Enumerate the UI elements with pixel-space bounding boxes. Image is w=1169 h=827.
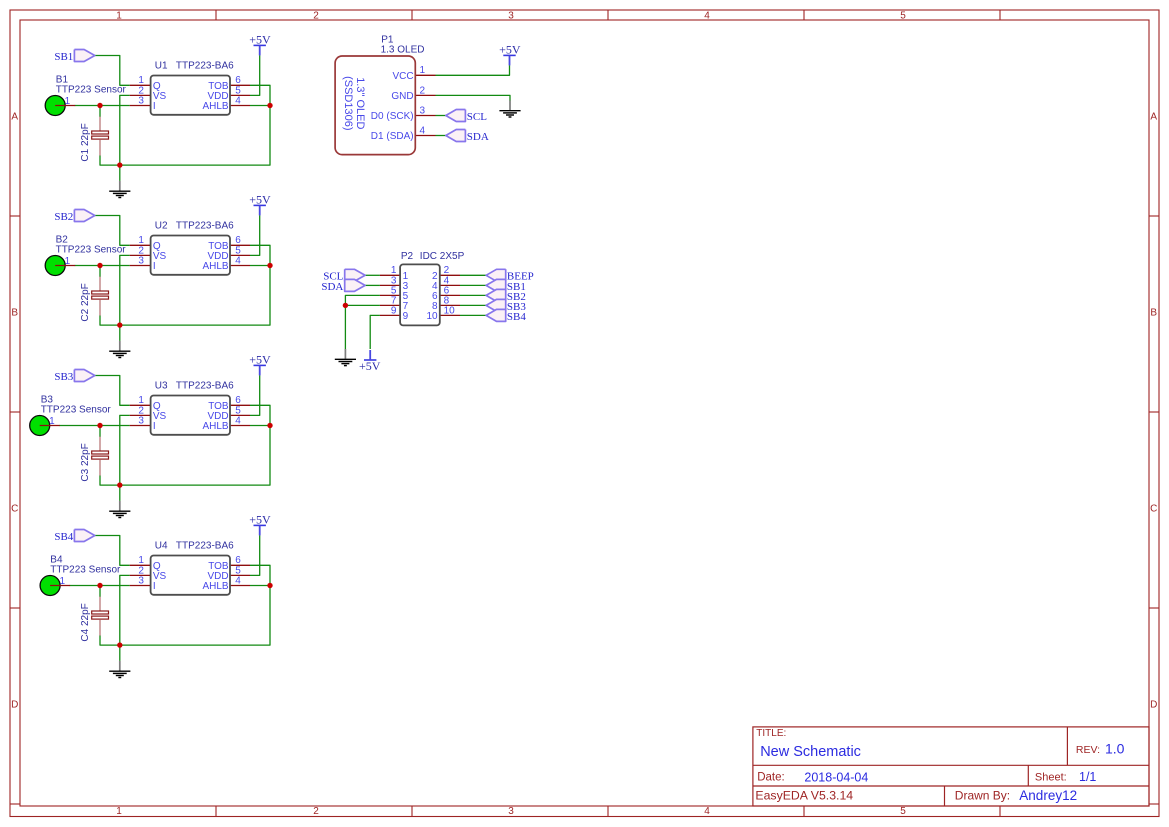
svg-text:+5V: +5V: [249, 512, 271, 526]
wire P1 D0 to SCL flag: [436, 115, 447, 117]
ground P1: [499, 100, 520, 117]
power +5V block 1: [249, 32, 271, 55]
svg-text:Drawn By:: Drawn By:: [955, 789, 1010, 803]
wire U1 pin 5 VDD to +5V: [250, 55, 260, 95]
svg-text:3: 3: [138, 415, 144, 426]
touch pad B1: [45, 96, 75, 116]
connector P2 IDC 2X5P: [380, 264, 460, 325]
svg-text:U1: U1: [155, 61, 168, 72]
svg-text:IDC 2X5P: IDC 2X5P: [420, 251, 465, 262]
capacitor C2 22pF: [80, 277, 108, 322]
svg-text:SB3: SB3: [54, 371, 73, 383]
svg-text:AHLB: AHLB: [202, 261, 228, 272]
wire ground rail: [100, 85, 270, 165]
wire SB2 flag to U2 pin 1: [95, 216, 130, 246]
wire P2 pin 6 to SB2 flag: [460, 294, 486, 296]
label B2 TTP223 Sensor: [56, 235, 127, 256]
svg-text:TTP223 Sensor: TTP223 Sensor: [56, 85, 127, 96]
svg-text:SB4: SB4: [507, 311, 526, 323]
svg-text:B: B: [11, 308, 18, 319]
wire SCL flag to P2 pin 1: [365, 274, 380, 276]
IC U1 TTP223-BA6: [130, 75, 250, 115]
label B1 TTP223 Sensor: [56, 75, 127, 96]
label B3 TTP223 Sensor: [41, 395, 112, 416]
svg-text:1.0: 1.0: [1105, 740, 1125, 756]
svg-text:5: 5: [900, 11, 906, 22]
svg-text:TTP223 Sensor: TTP223 Sensor: [50, 565, 121, 576]
svg-text:1: 1: [116, 806, 122, 817]
ground block 1: [119, 165, 121, 181]
junction node at B2/C2/pin3: [97, 263, 102, 268]
svg-text:SDA: SDA: [321, 281, 343, 293]
net flag SB1: [54, 50, 94, 63]
wire SB4 flag to U4 pin 1: [95, 536, 130, 566]
svg-text:1: 1: [65, 256, 71, 267]
junction node P2 ground: [343, 303, 348, 308]
label B4 TTP223 Sensor: [50, 555, 121, 576]
svg-text:2: 2: [420, 85, 426, 96]
wire U1 pin 2 VS down to ground rail: [120, 95, 130, 165]
svg-text:U4: U4: [155, 541, 168, 552]
svg-text:1: 1: [49, 416, 55, 427]
label P1 1.3 OLED: [381, 35, 425, 56]
svg-text:SB1: SB1: [54, 51, 73, 63]
svg-text:9: 9: [403, 311, 409, 322]
svg-text:(SSD1306): (SSD1306): [342, 76, 354, 130]
wire capacitor C2 top: [99, 266, 101, 278]
svg-text:TTP223 Sensor: TTP223 Sensor: [56, 245, 127, 256]
junction node AHLB/right rail: [267, 583, 272, 588]
svg-text:SB4: SB4: [54, 531, 73, 543]
svg-text:I: I: [153, 261, 156, 272]
svg-text:P2: P2: [401, 251, 414, 262]
svg-text:AHLB: AHLB: [202, 101, 228, 112]
svg-text:TTP223-BA6: TTP223-BA6: [176, 541, 234, 552]
wire SDA flag to P2 pin 3: [365, 284, 380, 286]
capacitor C3 22pF: [80, 437, 108, 482]
svg-text:3: 3: [508, 806, 514, 817]
svg-text:3: 3: [508, 11, 514, 22]
label U3 TTP223-BA6: [155, 381, 234, 392]
wire U1 pin 4 AHLB to right rail: [250, 105, 270, 107]
wire U3 pin 2 VS down to ground rail: [120, 415, 130, 485]
wire B2 to U2 pin 3: [75, 265, 130, 267]
svg-text:TTP223-BA6: TTP223-BA6: [176, 61, 234, 72]
power +5V P1: [499, 42, 521, 65]
svg-text:D0 (SCK): D0 (SCK): [371, 111, 414, 122]
svg-text:SCL: SCL: [467, 111, 487, 123]
svg-text:1: 1: [420, 65, 426, 76]
junction node AHLB/right rail: [267, 103, 272, 108]
wire U4 pin 4 AHLB to right rail: [250, 585, 270, 587]
junction node at B4/C4/pin3: [97, 583, 102, 588]
wire B3 to U3 pin 3: [59, 425, 130, 427]
junction node rail/ground: [117, 642, 122, 647]
svg-text:1.3 OLED: 1.3 OLED: [381, 45, 425, 56]
svg-text:1.3" OLED: 1.3" OLED: [354, 77, 366, 129]
wire ground rail: [100, 565, 270, 645]
svg-text:A: A: [1150, 112, 1157, 123]
svg-text:C4 22pF: C4 22pF: [80, 603, 91, 641]
svg-text:D: D: [11, 700, 18, 711]
svg-text:A: A: [11, 112, 18, 123]
svg-text:10: 10: [426, 311, 438, 322]
svg-text:I: I: [153, 101, 156, 112]
svg-text:4: 4: [235, 415, 241, 426]
svg-text:+5V: +5V: [249, 32, 271, 46]
label U2 TTP223-BA6: [155, 221, 234, 232]
net flag SB4: [54, 530, 94, 543]
svg-text:C: C: [11, 504, 18, 515]
svg-text:4: 4: [235, 95, 241, 106]
svg-text:1: 1: [65, 96, 71, 107]
touch pad B3: [30, 416, 60, 436]
svg-text:C1 22pF: C1 22pF: [80, 123, 91, 161]
touch pad B4: [40, 576, 70, 596]
capacitor C1 22pF: [80, 117, 108, 162]
svg-text:Date:: Date:: [757, 771, 785, 783]
svg-text:+5V: +5V: [249, 192, 271, 206]
svg-text:New Schematic: New Schematic: [760, 744, 861, 760]
svg-text:I: I: [153, 581, 156, 592]
wire ground rail: [100, 245, 270, 325]
svg-text:GND: GND: [391, 91, 413, 102]
svg-text:SB2: SB2: [54, 211, 73, 223]
svg-text:2: 2: [313, 11, 319, 22]
svg-text:3: 3: [138, 575, 144, 586]
svg-text:1: 1: [60, 576, 66, 587]
capacitor C4 22pF: [80, 597, 108, 642]
net flag SB3: [54, 370, 94, 383]
wire U4 pin 5 VDD to +5V: [250, 535, 260, 575]
wire P2 pin 7 to ground net: [345, 304, 380, 306]
svg-text:3: 3: [138, 255, 144, 266]
svg-text:+5V: +5V: [359, 359, 381, 373]
svg-text:B: B: [1150, 308, 1157, 319]
wire B1 to U1 pin 3: [75, 105, 130, 107]
net flag BEEP: [486, 269, 534, 282]
power +5V P2 (inverted): [359, 350, 381, 373]
title block: [753, 727, 1149, 806]
svg-text:5: 5: [900, 806, 906, 817]
svg-text:VCC: VCC: [392, 71, 413, 82]
svg-text:I: I: [153, 421, 156, 432]
label P2 IDC 2X5P: [401, 251, 465, 262]
svg-text:1: 1: [116, 11, 122, 22]
svg-text:TITLE:: TITLE:: [756, 728, 786, 739]
wire U4 pin 2 VS down to ground rail: [120, 575, 130, 645]
svg-text:9: 9: [391, 305, 397, 316]
junction node AHLB/right rail: [267, 263, 272, 268]
svg-text:Sheet:: Sheet:: [1035, 771, 1067, 783]
wire U2 pin 5 VDD to +5V: [250, 215, 260, 255]
svg-text:U2: U2: [155, 221, 168, 232]
svg-text:+5V: +5V: [249, 352, 271, 366]
ground block 3: [119, 485, 121, 501]
svg-text:C2 22pF: C2 22pF: [80, 283, 91, 321]
net flag SB4: [486, 309, 526, 322]
wire ground rail: [100, 405, 270, 485]
svg-text:3: 3: [420, 105, 426, 116]
svg-text:4: 4: [235, 575, 241, 586]
svg-text:1/1: 1/1: [1079, 770, 1096, 784]
svg-text:AHLB: AHLB: [202, 421, 228, 432]
svg-text:SDA: SDA: [467, 131, 489, 143]
wire capacitor C3 top: [99, 426, 101, 438]
svg-text:3: 3: [138, 95, 144, 106]
IC U2 TTP223-BA6: [130, 235, 250, 275]
net flag SB2: [54, 210, 94, 223]
label U4 TTP223-BA6: [155, 541, 234, 552]
net flag SCL at P1: [446, 110, 487, 123]
svg-text:Andrey12: Andrey12: [1019, 788, 1077, 803]
wire P1 GND to ground: [436, 95, 511, 100]
wire P2 pin 10 to SB4 flag: [460, 314, 486, 316]
junction node AHLB/right rail: [267, 423, 272, 428]
svg-text:4: 4: [420, 125, 426, 136]
wire P2 pin 4 to SB1 flag: [460, 284, 486, 286]
net flag SDA at P2: [321, 279, 365, 293]
wire P1 D1 to SDA flag: [436, 135, 447, 137]
svg-text:TTP223-BA6: TTP223-BA6: [176, 221, 234, 232]
wire U3 pin 4 AHLB to right rail: [250, 425, 270, 427]
ground block 2: [119, 325, 121, 341]
svg-text:2: 2: [313, 806, 319, 817]
svg-text:TTP223 Sensor: TTP223 Sensor: [41, 405, 112, 416]
svg-text:TTP223-BA6: TTP223-BA6: [176, 381, 234, 392]
label U1 TTP223-BA6: [155, 61, 234, 72]
ground block 4: [119, 645, 121, 661]
IC U4 TTP223-BA6: [130, 555, 250, 595]
wire P1 VCC to +5V: [436, 65, 510, 75]
net flag SDA at P1: [446, 130, 489, 143]
svg-text:C3 22pF: C3 22pF: [80, 443, 91, 481]
wire U2 pin 4 AHLB to right rail: [250, 265, 270, 267]
svg-text:D1 (SDA): D1 (SDA): [371, 131, 414, 142]
net flag SB3: [486, 299, 526, 312]
svg-text:U3: U3: [155, 381, 168, 392]
wire SB1 flag to U1 pin 1: [95, 56, 130, 86]
wire SB3 flag to U3 pin 1: [95, 376, 130, 406]
power +5V block 3: [249, 352, 271, 375]
wire P2 pin 2 to BEEP flag: [460, 274, 486, 276]
svg-text:REV:: REV:: [1076, 744, 1100, 756]
wire U2 pin 2 VS down to ground rail: [120, 255, 130, 325]
net flag SB1: [486, 279, 526, 292]
junction node at B3/C3/pin3: [97, 423, 102, 428]
svg-text:4: 4: [704, 806, 710, 817]
touch pad B2: [45, 256, 75, 276]
connector P1 1.3 OLED: [335, 56, 435, 155]
power +5V block 4: [249, 512, 271, 535]
svg-text:+5V: +5V: [499, 42, 521, 56]
svg-text:4: 4: [704, 11, 710, 22]
junction node rail/ground: [117, 162, 122, 167]
wire ground net down: [344, 305, 346, 349]
svg-text:4: 4: [235, 255, 241, 266]
svg-text:2018-04-04: 2018-04-04: [804, 770, 868, 784]
frame column ticks top/bottom: [215, 10, 217, 20]
wire B4 to U4 pin 3: [70, 585, 130, 587]
wire capacitor C4 top: [99, 586, 101, 598]
wire P2 pin 9 to +5V: [370, 315, 380, 349]
junction node at B1/C1/pin3: [97, 103, 102, 108]
svg-text:AHLB: AHLB: [202, 581, 228, 592]
wire capacitor C1 top: [99, 106, 101, 118]
frame row ticks left/right: [10, 215, 20, 217]
net flag SCL at P2: [323, 269, 365, 282]
ground P2: [335, 349, 356, 366]
junction node rail/ground: [117, 322, 122, 327]
svg-text:EasyEDA V5.3.14: EasyEDA V5.3.14: [755, 789, 853, 803]
wire P2 pin 8 to SB3 flag: [460, 304, 486, 306]
svg-text:C: C: [1150, 504, 1157, 515]
wire U3 pin 5 VDD to +5V: [250, 375, 260, 415]
IC U3 TTP223-BA6: [130, 395, 250, 435]
wire P2 pin 5 to ground net: [345, 295, 380, 305]
junction node rail/ground: [117, 482, 122, 487]
svg-text:10: 10: [444, 305, 456, 316]
svg-text:D: D: [1150, 700, 1157, 711]
net flag SB2: [486, 289, 526, 302]
power +5V block 2: [249, 192, 271, 215]
